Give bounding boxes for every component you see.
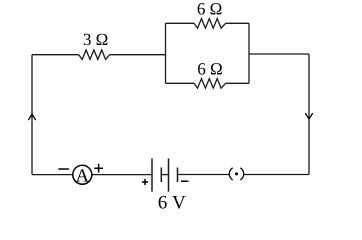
battery B1 two cells [152,158,178,191]
label 6 ohm top [198,3,222,14]
ammeter A1 [73,165,92,184]
node parallel box left junction wire [165,23,167,83]
wire battery to key [178,174,230,176]
current arrow up (left wire) [29,114,36,119]
wire bottom branch [166,82,250,84]
resistor R2 6ohm (top branch) [194,19,226,29]
resistor R3 6ohm (bottom branch) [194,79,226,89]
ammeter minus sign [58,168,69,170]
wire bottom left segment [32,174,72,176]
current arrow down (right wire) [306,114,313,119]
wire top-left horizontal [32,54,166,56]
label 6 ohm bottom [198,63,222,74]
wire top branch [166,22,250,24]
node parallel box right junction wire [248,23,250,83]
plug key K1 [229,168,243,180]
wire bottom right segment [243,174,309,176]
wire box right to corner [249,53,309,55]
label 3 ohm [84,34,108,45]
battery minus sign [181,180,189,182]
wire ammeter to battery [93,174,153,176]
battery plus sign [142,179,148,185]
ammeter plus sign [94,164,103,173]
label 6 V [159,196,186,209]
wire right vertical [308,54,310,175]
wire left vertical [31,55,33,175]
resistor R1 3ohm [79,50,110,59]
